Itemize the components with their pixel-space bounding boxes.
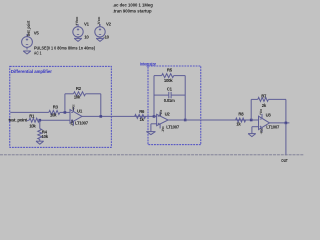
svg-text:-Vcc: -Vcc <box>260 128 264 134</box>
svg-text:LT1007: LT1007 <box>166 124 180 129</box>
svg-text:.ac dec 1000 1 1Meg: .ac dec 1000 1 1Meg <box>113 2 153 7</box>
svg-text:PULSE(0 1 0 80ms 80ms 1n 40ms): PULSE(0 1 0 80ms 80ms 1n 40ms) <box>34 46 95 51</box>
svg-text:+Vcc: +Vcc <box>75 17 79 26</box>
svg-text:LT1007: LT1007 <box>75 121 89 126</box>
svg-text:-Vcc: -Vcc <box>161 126 165 132</box>
svg-text:-Vcc: -Vcc <box>70 120 74 126</box>
svg-text:-10: -10 <box>103 34 109 39</box>
svg-text:test_point: test_point <box>26 20 31 36</box>
svg-text:+Vcc: +Vcc <box>259 109 263 115</box>
svg-text:C1: C1 <box>167 86 173 91</box>
svg-text:test_point: test_point <box>9 117 28 122</box>
svg-text:AC 1: AC 1 <box>34 51 42 56</box>
svg-text:0.01m: 0.01m <box>164 98 175 103</box>
svg-text:-Vcc: -Vcc <box>97 17 101 26</box>
svg-text:Differential amplifier: Differential amplifier <box>11 69 52 74</box>
svg-text:100k: 100k <box>164 78 173 83</box>
svg-text:10k: 10k <box>29 124 36 129</box>
svg-text:Integrator: Integrator <box>140 62 156 67</box>
svg-text:R3: R3 <box>53 104 59 109</box>
svg-text:OUT: OUT <box>281 158 288 163</box>
svg-text:+Vcc: +Vcc <box>72 105 76 111</box>
svg-text:.tran 900ms startup: .tran 900ms startup <box>113 9 152 14</box>
svg-text:10k: 10k <box>50 112 57 117</box>
svg-text:10k: 10k <box>42 134 49 139</box>
svg-text:+Vcc: +Vcc <box>159 110 163 116</box>
svg-text:10k: 10k <box>74 94 81 99</box>
svg-text:LT1007: LT1007 <box>266 124 280 129</box>
